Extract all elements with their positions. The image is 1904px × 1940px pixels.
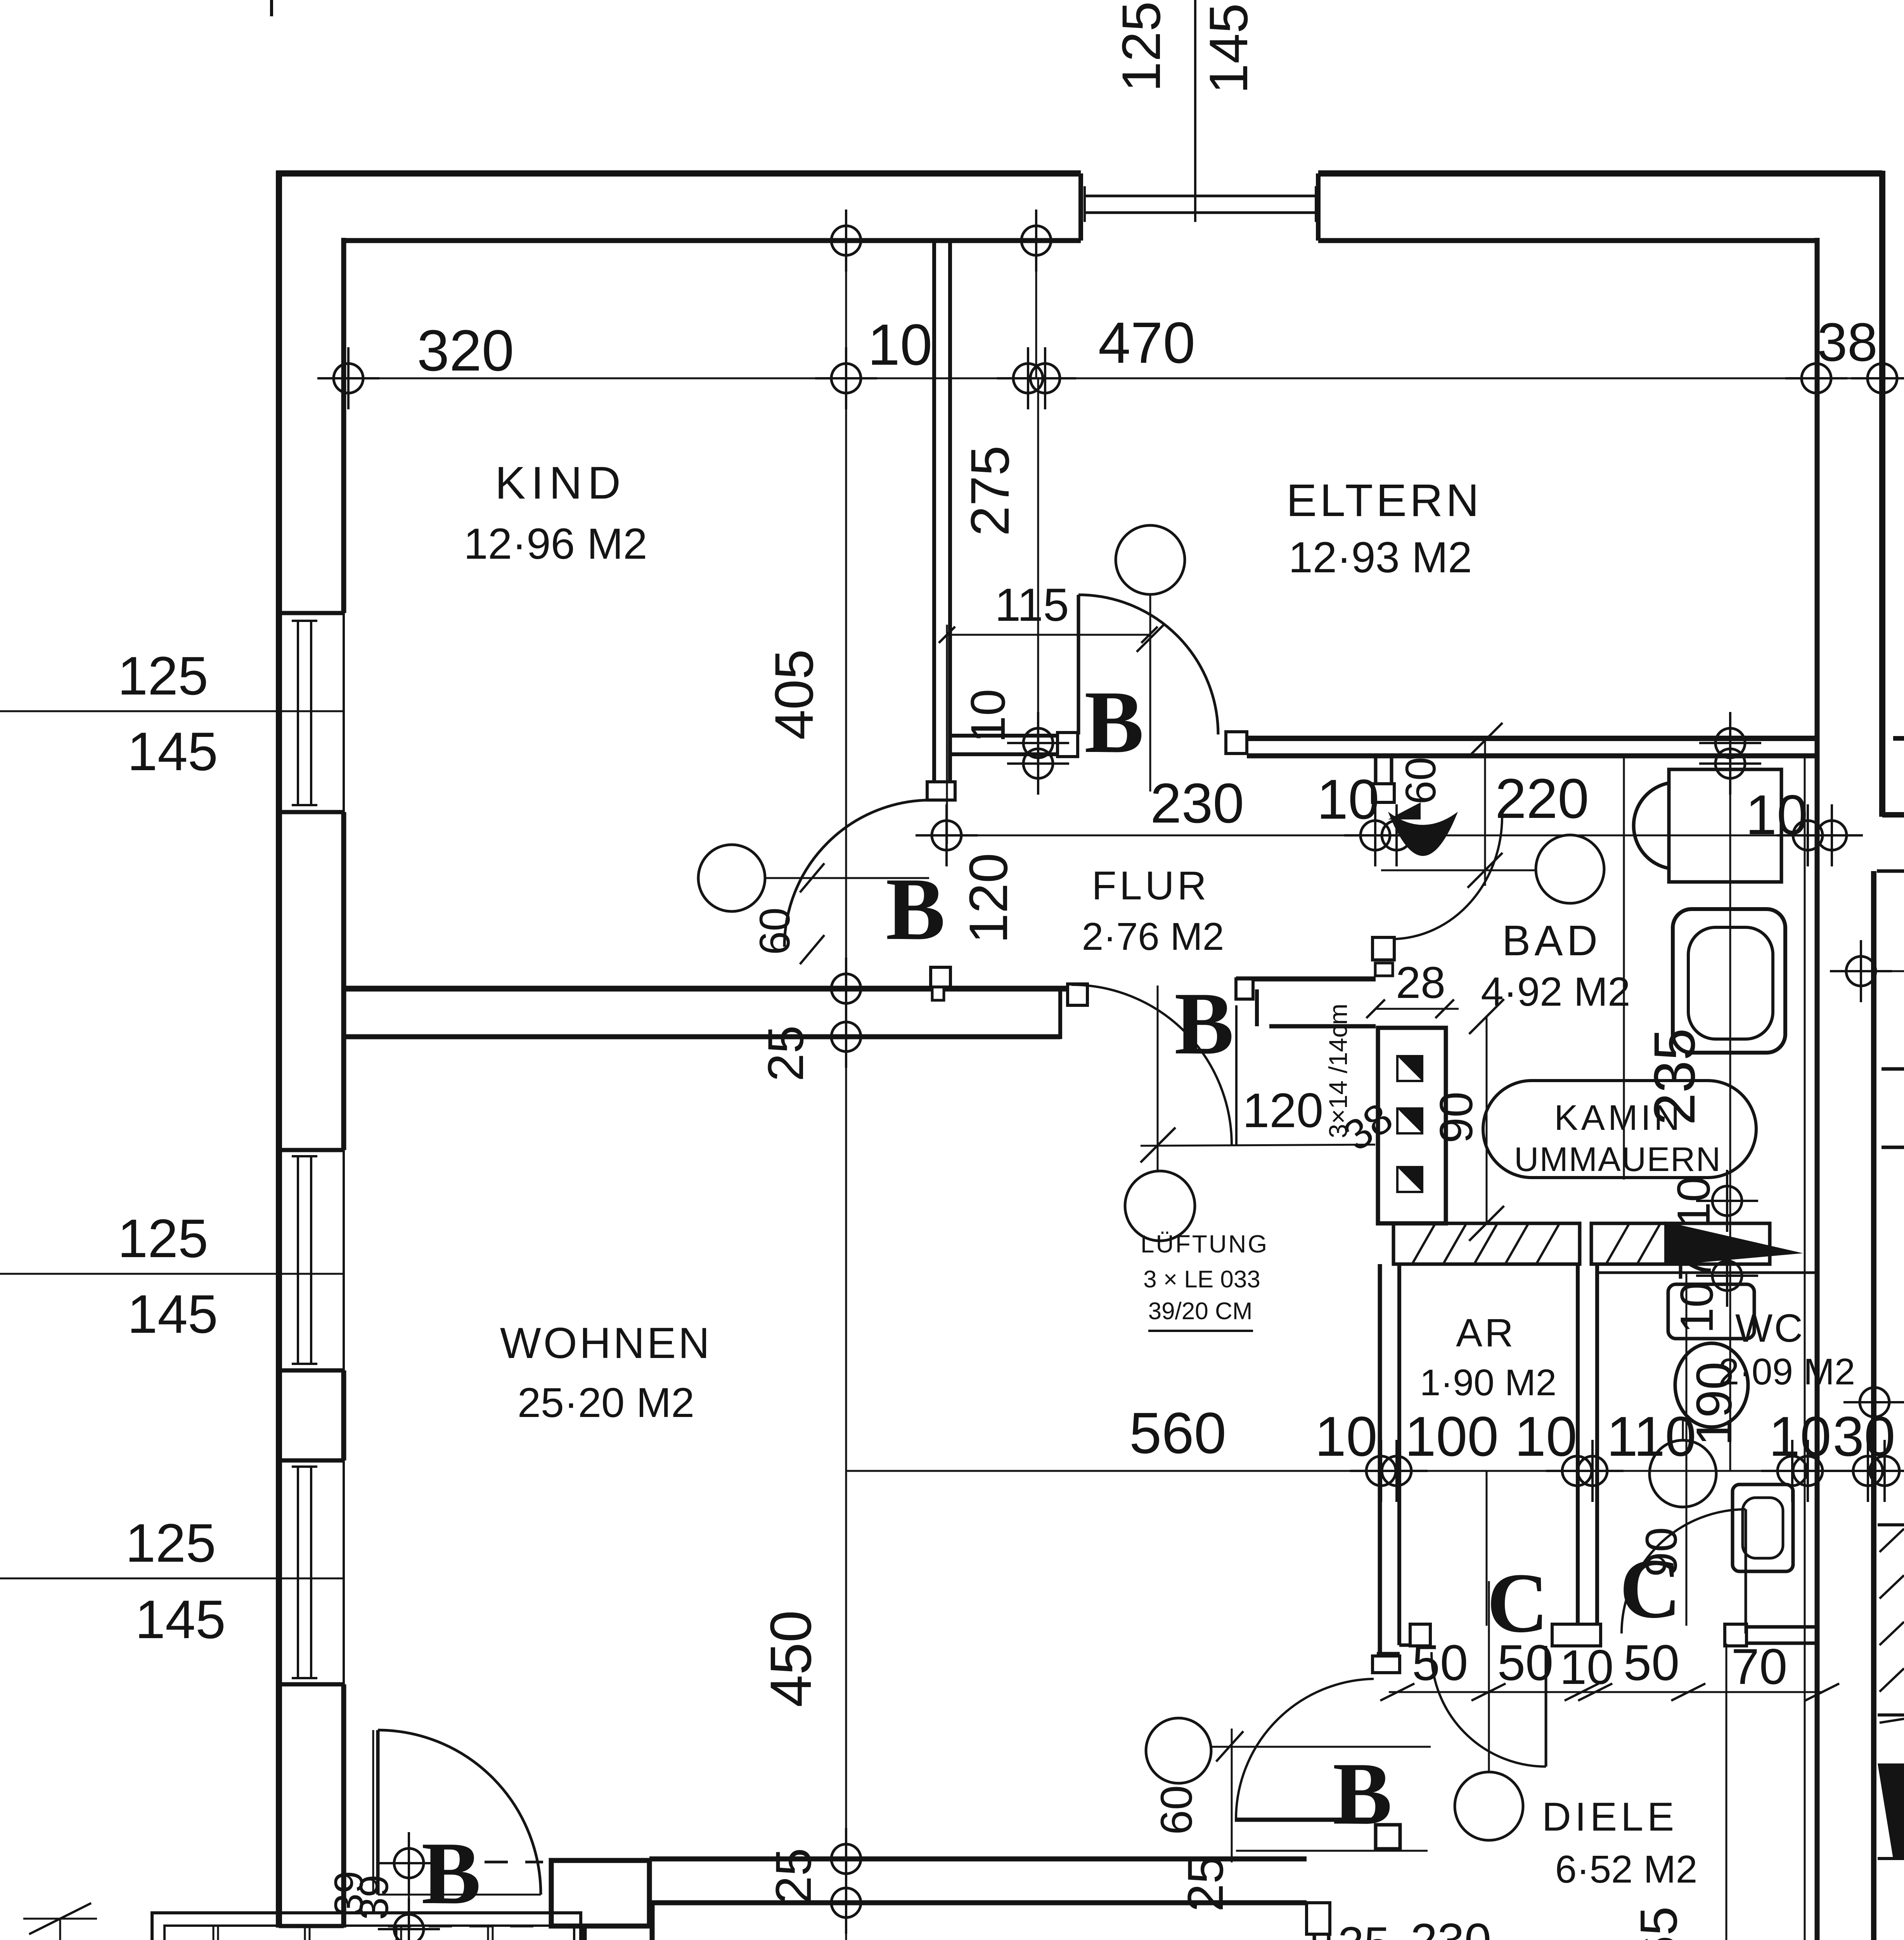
neighbour bath fragment right (1877, 870, 1904, 873)
bathtub BAD inner (1688, 927, 1773, 1039)
jamb ELTERN door left (1058, 733, 1078, 757)
svg-text:125: 125 (125, 1512, 216, 1573)
dim line 230 y2153 (947, 835, 1375, 837)
svg-text:70: 70 (1731, 1638, 1788, 1695)
svg-text:90: 90 (1430, 1091, 1482, 1143)
svg-text:30: 30 (1833, 1405, 1895, 1468)
door B ELTERN leaf (1077, 595, 1080, 734)
svg-text:C: C (1487, 1555, 1549, 1650)
door C AR arc (1431, 1652, 1546, 1767)
svg-text:50: 50 (1412, 1634, 1468, 1691)
dim line x4450 vertical entry (1726, 1644, 1727, 1940)
dim line 120 corridor (1141, 1145, 1375, 1146)
door B terrace leaf (376, 1730, 380, 1895)
dim ext line x2441 kind door (946, 625, 948, 844)
door C BAD arc (1395, 818, 1502, 939)
dim ticks 60 wohnen lamp (800, 935, 824, 964)
hatched wall WC north (1591, 1223, 1770, 1264)
wall WOHNEN-KUECHE south bottom line (649, 1900, 1307, 1905)
window ELTERN north jamb right (1316, 173, 1321, 241)
svg-text:FLUR: FLUR (1092, 863, 1210, 908)
thin inner wall lines across windows (343, 613, 345, 812)
dim ext line x4347 WC (1686, 1273, 1688, 1626)
dim ext line DIELE door (1231, 1729, 1233, 1862)
svg-text:WOHNEN: WOHNEN (500, 1319, 712, 1367)
svg-text:60: 60 (1152, 1785, 1201, 1835)
svg-text:2·76 M2: 2·76 M2 (1082, 915, 1224, 958)
svg-text:ELTERN: ELTERN (1286, 475, 1482, 526)
door B FLUR-WOHNEN arc (1071, 985, 1232, 1145)
dim ext line x4186 BAD (1623, 757, 1625, 1180)
jamb AR door left (1410, 1624, 1430, 1646)
svg-text:70: 70 (1669, 1229, 1721, 1281)
dim ext line x3832 AR (1486, 1471, 1488, 1626)
wall WC top thin (1597, 1271, 1817, 1274)
svg-text:125: 125 (1111, 1, 1172, 92)
lamp WOHNEN (1146, 1718, 1211, 1783)
svg-text:LÜFTUNG: LÜFTUNG (1141, 1230, 1269, 1258)
dim line neighbour y2503 (1839, 970, 1904, 972)
svg-text:3×14 /14cm: 3×14 /14cm (1324, 1004, 1352, 1138)
svg-text:110: 110 (1606, 1405, 1696, 1468)
wall AR west (1378, 1264, 1382, 1654)
svg-text:145: 145 (127, 1284, 218, 1344)
dim line y4361 AR-WC doors (1389, 1691, 1823, 1693)
jamb AR door lower (1373, 1656, 1400, 1673)
svg-text:60: 60 (751, 908, 799, 955)
dim ext line BAD door x3828 (1484, 740, 1486, 886)
chimney flue 1 (1397, 1056, 1422, 1081)
hatched wall AR north (1393, 1223, 1580, 1264)
svg-text:470: 470 (1098, 310, 1195, 375)
svg-text:25·20 M2: 25·20 M2 (518, 1379, 694, 1426)
svg-text:39: 39 (351, 1875, 397, 1920)
dim line y3283 window 125 (0, 1273, 344, 1275)
svg-text:WC: WC (1735, 1306, 1804, 1350)
toilet WC bowl (1675, 1343, 1748, 1427)
window W3 left WOHNEN glazing (297, 1467, 299, 1678)
svg-text:60: 60 (1397, 757, 1445, 804)
svg-text:165: 165 (405, 1931, 489, 1940)
wall WC south right (1746, 1625, 1817, 1629)
svg-text:125: 125 (118, 1208, 208, 1269)
wall inner right (1815, 238, 1820, 1940)
jamb KIND door (927, 782, 955, 800)
dim line 115 (947, 634, 1149, 636)
svg-text:10: 10 (1560, 1640, 1613, 1694)
svg-text:230: 230 (1411, 1914, 1492, 1940)
toilet WC tank (1668, 1284, 1754, 1339)
bathtub BAD outer (1673, 909, 1785, 1053)
chimney flue 2 (1397, 1109, 1422, 1133)
svg-text:B: B (1084, 672, 1144, 771)
wall outer top (276, 170, 1081, 177)
svg-text:KIND: KIND (495, 457, 626, 509)
svg-text:UMMAUERN: UMMAUERN (1514, 1140, 1721, 1178)
dim line y1833 window 125 (0, 710, 344, 712)
wall FLUR north left piece (950, 734, 1058, 738)
svg-text:560: 560 (1129, 1400, 1226, 1465)
dim line x155 vertical 325 (59, 1919, 61, 1940)
jamb DIELE door (1376, 1825, 1400, 1849)
svg-text:12·96 M2: 12·96 M2 (464, 520, 647, 568)
svg-text:4·92 M2: 4·92 M2 (1481, 969, 1630, 1015)
svg-text:10: 10 (868, 312, 933, 377)
svg-text:115: 115 (995, 579, 1069, 631)
lamp FLUR corridor (1125, 1171, 1195, 1241)
svg-text:38: 38 (1817, 312, 1878, 372)
svg-text:100: 100 (1405, 1405, 1499, 1468)
svg-text:10: 10 (1745, 783, 1808, 846)
wall corridor north piece (1236, 977, 1376, 982)
dim line y4068 window 125 (0, 1578, 344, 1580)
svg-text:450: 450 (758, 1610, 823, 1707)
svg-text:10: 10 (961, 689, 1015, 743)
dim line 28 (1376, 1008, 1459, 1010)
svg-text:120: 120 (958, 853, 1019, 944)
pier caps left wall (279, 611, 344, 615)
wall outer left (276, 171, 282, 1928)
wall partition KIND-ELTERN (932, 241, 936, 782)
svg-text:145: 145 (127, 721, 218, 782)
washbasin BAD bowl (1634, 783, 1669, 868)
svg-text:145: 145 (1198, 3, 1259, 94)
DOORS-START (373, 595, 1904, 1940)
neighbour wall fragment upper right (1893, 736, 1904, 741)
svg-text:B: B (886, 859, 945, 958)
svg-text:C: C (1620, 1541, 1681, 1636)
svg-text:12·93 M2: 12·93 M2 (1288, 533, 1472, 582)
dim line y3791 main middle (846, 1470, 1904, 1472)
wall block terrace-door right (551, 1860, 649, 1926)
loggia grid vertical lines (213, 1926, 215, 1940)
dim ext corridor lamp stem (1157, 986, 1159, 1172)
wall BAD north band (1247, 736, 1817, 741)
door C WC arc (1622, 1509, 1746, 1633)
wall outer top right of window (1318, 170, 1882, 177)
door B ELTERN arc (1078, 595, 1218, 734)
lamp WC (1650, 1440, 1716, 1507)
wall BAD west upper stub (1374, 756, 1378, 802)
svg-text:AR: AR (1456, 1311, 1516, 1355)
washbasin BAD counter (1669, 769, 1781, 882)
svg-text:B: B (421, 1824, 481, 1923)
jamb ELTERN door right (1226, 732, 1247, 753)
washbasin WC (1733, 1484, 1793, 1571)
wall corridor step (1255, 989, 1259, 1026)
wall inner top right (1318, 238, 1817, 243)
door B terrace dashed wall lines (485, 1861, 543, 1864)
lamp BAD (1536, 835, 1604, 903)
window ELTERN north jamb left (1078, 173, 1083, 241)
svg-text:275: 275 (959, 445, 1020, 536)
FIX-START (674, 525, 1856, 1940)
wall stub AR-WC south (1552, 1624, 1601, 1646)
wall AR-WC divider (1576, 1264, 1580, 1626)
svg-text:35: 35 (1338, 1917, 1390, 1940)
svg-text:10: 10 (1769, 1405, 1831, 1468)
svg-text:120: 120 (1243, 1084, 1324, 1138)
window W2 left WOHNEN glazing (297, 1156, 299, 1364)
wall KUECHE west inner upper (650, 1903, 655, 1940)
wall FLUR south left (WOHNEN side) (344, 986, 1071, 992)
KAMIN stadium outline (1483, 1081, 1756, 1178)
door B FLUR-WOHNEN frame line (1235, 1005, 1238, 1146)
jamb WC door right (1725, 1624, 1746, 1646)
svg-text:1·90 M2: 1·90 M2 (1420, 1362, 1556, 1403)
wall DIELE west short (1313, 1934, 1316, 1940)
svg-text:B: B (1249, 1930, 1309, 1940)
svg-text:DIELE: DIELE (1542, 1794, 1678, 1840)
jamb corridor left (1236, 979, 1253, 999)
svg-text:220: 220 (1495, 767, 1589, 830)
wall inner top left (344, 238, 1081, 243)
svg-text:265: 265 (1629, 1906, 1688, 1940)
svg-text:6·52 M2: 6·52 M2 (1555, 1848, 1698, 1891)
chimney flue 3 (1397, 1167, 1422, 1192)
door C BAD leaf filled crescent (1388, 812, 1458, 856)
wall neighbour right of stair hatch (1878, 1523, 1904, 1526)
svg-text:10: 10 (1671, 1282, 1723, 1333)
svg-text:50: 50 (1624, 1634, 1680, 1691)
window ELTERN north glazing (1085, 195, 1316, 197)
svg-text:10: 10 (1315, 1405, 1377, 1468)
svg-text:320: 320 (417, 318, 514, 383)
wall WOHNEN-KUECHE south top line (649, 1857, 1307, 1862)
jamb BAD door top (1373, 784, 1394, 802)
wall inner left segments (341, 238, 346, 613)
dim ext lines from top wall (845, 241, 847, 378)
wall DIELE door stub (1235, 1818, 1378, 1822)
svg-text:25: 25 (1177, 1856, 1234, 1912)
svg-text:39/20 CM: 39/20 CM (1148, 1298, 1253, 1325)
svg-text:3 × LE 033: 3 × LE 033 (1143, 1266, 1260, 1293)
window W1 left KIND glazing (297, 621, 299, 805)
dim line x2676 vertical 275 (1037, 378, 1039, 792)
svg-text:B: B (1333, 1744, 1392, 1843)
wall outer right upper (1879, 171, 1885, 817)
lamp KIND (698, 845, 765, 911)
door C WC leaf (1745, 1509, 1747, 1633)
tick mark top left (270, 0, 273, 16)
door C AR leaf (1545, 1646, 1547, 1767)
axis line top 125-145 (1194, 0, 1196, 222)
door B terrace arc (378, 1730, 541, 1895)
dim ext line 90 kamin (1486, 1017, 1488, 1223)
wall FLUR south end face (1058, 986, 1062, 1039)
door B KIND arc (784, 800, 931, 947)
dim ext line terrace door (408, 1835, 410, 1940)
svg-text:BAD: BAD (1502, 917, 1601, 965)
svg-text:230: 230 (1150, 772, 1244, 835)
svg-text:25: 25 (757, 1025, 814, 1082)
svg-text:235: 235 (1642, 1028, 1707, 1125)
marker crosses (317, 347, 379, 409)
black duct wedge WC (1664, 1221, 1803, 1266)
dim line y975 main top (324, 378, 1904, 379)
loggia terrasse inner frame (164, 1926, 574, 1940)
dim line x2181 vertical main (845, 378, 847, 1940)
door B DIELE arc (1236, 1679, 1374, 1819)
svg-text:125: 125 (118, 645, 208, 706)
dim line x4460 vertical 235 (1729, 743, 1731, 1471)
svg-text:10: 10 (1515, 1405, 1577, 1468)
jamb BAD door bottom (1373, 937, 1394, 960)
black wedge neighbour stair (1878, 1763, 1904, 1859)
wall chimney block (1378, 1028, 1446, 1223)
svg-text:405: 405 (763, 649, 824, 740)
wall neighbour right lower (1871, 871, 1876, 1940)
lamp ELTERN (1116, 525, 1185, 594)
svg-text:28: 28 (1396, 958, 1445, 1008)
wall AR west foot (1399, 1644, 1418, 1647)
wall KUECHE west outer (582, 1926, 587, 1940)
svg-text:25: 25 (765, 1848, 822, 1904)
loggia terrasse outer frame (152, 1913, 581, 1940)
svg-text:10: 10 (1317, 768, 1379, 831)
lamp DIELE (1455, 1772, 1523, 1840)
jamb FLUR corridor door (1068, 984, 1087, 1005)
jamb FLUR-WOHNEN door (931, 967, 950, 987)
svg-text:10: 10 (1668, 1176, 1720, 1228)
svg-text:B: B (1174, 974, 1234, 1073)
wall DIELE west upper block (1307, 1903, 1330, 1934)
svg-text:145: 145 (135, 1589, 226, 1650)
